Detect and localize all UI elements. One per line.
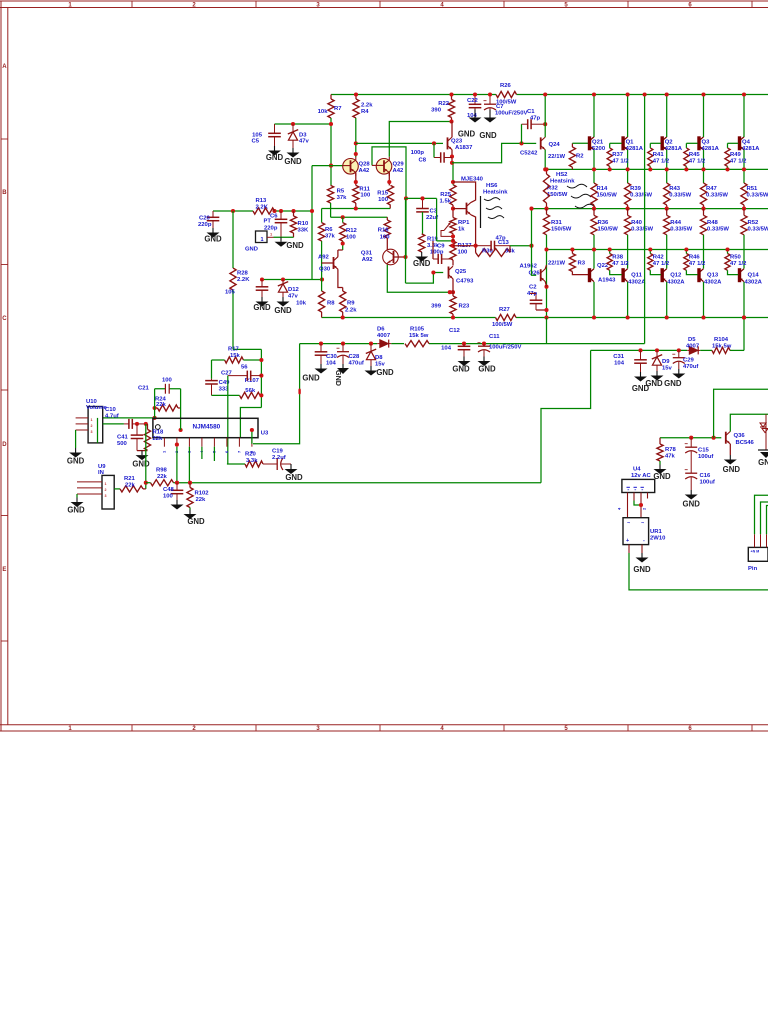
wire Q31 base bbox=[394, 256, 406, 258]
resistor R42 bbox=[648, 254, 653, 271]
wire input to loop bbox=[103, 417, 155, 419]
svg-text:U3: U3 bbox=[261, 431, 269, 437]
svg-text:10k: 10k bbox=[296, 301, 307, 307]
resistor R41 bbox=[648, 148, 653, 167]
capacitor C12 bbox=[463, 344, 465, 347]
svg-text:R46: R46 bbox=[689, 255, 701, 261]
svg-text:3: 3 bbox=[105, 494, 107, 498]
resistor R21 bbox=[114, 488, 120, 490]
svg-text:Q14: Q14 bbox=[748, 273, 760, 279]
svg-text:12v AC: 12v AC bbox=[631, 473, 652, 479]
svg-text:R44: R44 bbox=[670, 220, 682, 226]
resistor R107 bbox=[240, 392, 261, 398]
svg-text:100uF/250V: 100uF/250V bbox=[495, 111, 527, 117]
wire pin3 down bbox=[188, 447, 190, 483]
wire UR1 outputs bbox=[628, 545, 630, 553]
svg-text:Q21: Q21 bbox=[592, 140, 604, 146]
ground D12 bbox=[282, 297, 284, 302]
svg-text:500: 500 bbox=[117, 441, 128, 447]
svg-text:C19: C19 bbox=[272, 449, 284, 455]
svg-text:R105: R105 bbox=[410, 327, 425, 333]
svg-text:4281A: 4281A bbox=[665, 146, 683, 152]
svg-text:Q24: Q24 bbox=[549, 142, 561, 148]
wire Q3 collector bbox=[703, 95, 705, 138]
svg-text:R39: R39 bbox=[630, 186, 642, 192]
svg-text:Q13: Q13 bbox=[707, 273, 719, 279]
transistor Q4 bbox=[738, 136, 741, 150]
svg-text:47v: 47v bbox=[299, 139, 310, 145]
wire Q2 collector bbox=[666, 95, 668, 138]
resistor R11 bbox=[353, 185, 359, 203]
resistor R8 bbox=[319, 291, 325, 312]
svg-text:R51: R51 bbox=[747, 186, 759, 192]
svg-text:C28: C28 bbox=[349, 354, 361, 360]
svg-text:R42: R42 bbox=[653, 255, 665, 261]
svg-text:Q2: Q2 bbox=[665, 140, 674, 146]
ground D9 bbox=[656, 371, 658, 376]
svg-text:D12: D12 bbox=[288, 287, 300, 293]
svg-text:GND: GND bbox=[334, 370, 343, 386]
wire R49 bbox=[728, 142, 739, 144]
svg-text:R14: R14 bbox=[597, 186, 609, 192]
capacitor C22 bbox=[474, 95, 476, 105]
ground C31 bbox=[640, 372, 642, 377]
svg-text:GND: GND bbox=[204, 235, 222, 244]
capacitor C15 bbox=[690, 438, 692, 448]
svg-text:A42: A42 bbox=[359, 168, 371, 174]
svg-text:D8: D8 bbox=[375, 355, 383, 361]
resistor R23 bbox=[450, 296, 456, 314]
wire Q13 collector bbox=[703, 282, 705, 318]
svg-text:R41: R41 bbox=[653, 152, 665, 158]
resistor R31 bbox=[543, 214, 549, 235]
capacitor C4 105 bbox=[261, 280, 263, 287]
svg-text:C30: C30 bbox=[326, 354, 338, 360]
svg-text:47 1/2: 47 1/2 bbox=[612, 159, 629, 165]
svg-text:R2: R2 bbox=[576, 154, 584, 160]
svg-text:R8: R8 bbox=[327, 301, 335, 307]
svg-text:R37: R37 bbox=[612, 152, 624, 158]
svg-text:2.2k: 2.2k bbox=[345, 308, 357, 314]
wire Q26 collector bbox=[545, 265, 546, 269]
svg-text:GND: GND bbox=[478, 365, 496, 374]
wire Q2 emitter bbox=[666, 150, 668, 183]
resistor R9 bbox=[340, 291, 346, 312]
wire V- to supply row bbox=[546, 318, 548, 344]
svg-text:47 1/2: 47 1/2 bbox=[689, 159, 706, 165]
svg-text:10k: 10k bbox=[318, 109, 329, 115]
resistor R10 bbox=[290, 216, 296, 233]
resistor R38 bbox=[607, 254, 612, 271]
wire Q1 collector bbox=[627, 95, 629, 138]
ground right edge bbox=[758, 449, 768, 451]
wire R30 to Q26 base bbox=[510, 245, 532, 247]
transistor Q21 bbox=[588, 136, 591, 150]
svg-text:100p: 100p bbox=[430, 250, 444, 256]
svg-text:GND: GND bbox=[284, 157, 302, 166]
svg-text:R78: R78 bbox=[665, 447, 677, 453]
svg-text:GND: GND bbox=[67, 457, 85, 466]
wire op-amp supply drop bbox=[253, 344, 300, 444]
svg-text:Q11: Q11 bbox=[631, 273, 643, 279]
svg-text:GND: GND bbox=[479, 131, 497, 140]
wire R107 row bbox=[212, 394, 240, 396]
svg-text:Q12: Q12 bbox=[670, 273, 682, 279]
wire bias feed bbox=[714, 389, 768, 437]
capacitor C6 bbox=[280, 211, 282, 219]
wire Q36 collector bbox=[730, 414, 768, 431]
ground R78 bbox=[659, 461, 661, 465]
wire C3 to R19 bbox=[422, 212, 424, 234]
capacitor C3 bbox=[422, 198, 424, 208]
wire Q24 base bbox=[522, 142, 537, 144]
svg-text:R40: R40 bbox=[631, 220, 643, 226]
wire driver chain bbox=[452, 163, 454, 185]
ground C28 rotated bbox=[342, 364, 344, 368]
ground C19 bbox=[290, 464, 292, 469]
transistor Q22 bbox=[588, 268, 591, 282]
svg-text:1: 1 bbox=[260, 237, 263, 243]
wire Q28 base bbox=[312, 165, 344, 167]
wire zener supply row bbox=[591, 349, 688, 351]
wire R28 column bbox=[232, 211, 234, 268]
svg-text:1k: 1k bbox=[458, 227, 465, 233]
svg-text:100: 100 bbox=[378, 197, 389, 203]
svg-text:B: B bbox=[2, 190, 7, 196]
svg-text:1.5k: 1.5k bbox=[440, 199, 452, 205]
svg-text:0.33/5W: 0.33/5W bbox=[707, 227, 729, 233]
svg-text:15v: 15v bbox=[375, 362, 386, 368]
svg-text:R21: R21 bbox=[124, 476, 136, 482]
resistor R40 bbox=[625, 215, 631, 235]
resistor R22 bbox=[448, 100, 454, 118]
svg-text:104: 104 bbox=[326, 361, 337, 367]
wire Q13 emitter bbox=[703, 262, 705, 269]
svg-text:R9: R9 bbox=[347, 301, 355, 307]
svg-text:R43: R43 bbox=[669, 186, 681, 192]
svg-text:C12: C12 bbox=[449, 328, 461, 334]
svg-text:2.2uf: 2.2uf bbox=[272, 455, 286, 461]
wire Q36 emitter bbox=[729, 444, 731, 455]
wire column Q4 bbox=[743, 235, 745, 262]
svg-text:Pin: Pin bbox=[748, 566, 758, 572]
resistor R20 bbox=[227, 463, 245, 465]
wire R17 loop bbox=[212, 359, 225, 361]
svg-text:4007: 4007 bbox=[686, 344, 700, 350]
bridge rectifier UR1 bbox=[623, 518, 649, 545]
svg-text:C1: C1 bbox=[527, 109, 535, 115]
svg-text:Q36: Q36 bbox=[734, 433, 746, 439]
resistor R102 bbox=[187, 488, 193, 508]
resistor R17 bbox=[225, 357, 244, 363]
svg-text:100uf: 100uf bbox=[700, 480, 715, 486]
wire Q21 collector bbox=[593, 95, 595, 138]
svg-text:GND: GND bbox=[285, 473, 303, 482]
svg-text:C5: C5 bbox=[251, 139, 259, 145]
wire R38 bbox=[609, 250, 611, 254]
wire PT/C6/R10 gnd node bbox=[274, 236, 294, 238]
resistor R27 bbox=[496, 314, 517, 320]
wire loop verticals bbox=[154, 389, 156, 419]
resistor R24 bbox=[158, 405, 179, 411]
svg-text:C48: C48 bbox=[163, 487, 175, 493]
svg-text:Heatsink: Heatsink bbox=[550, 179, 575, 185]
svg-text:R50: R50 bbox=[730, 255, 742, 261]
svg-text:GND: GND bbox=[645, 379, 663, 388]
svg-text:220p: 220p bbox=[198, 222, 212, 228]
wire input node column bbox=[311, 166, 313, 280]
transformer U4 bbox=[622, 479, 655, 492]
svg-text:+N M: +N M bbox=[751, 550, 760, 554]
svg-text:2.2K: 2.2K bbox=[237, 277, 250, 283]
diode D6 bbox=[377, 343, 380, 345]
wire pin4 stub bbox=[201, 447, 203, 459]
wire pin2 to C10 bbox=[103, 423, 124, 425]
resistor R98 bbox=[151, 480, 174, 486]
svg-text:BC546: BC546 bbox=[736, 440, 755, 446]
svg-text:150/5W: 150/5W bbox=[547, 192, 568, 198]
svg-text:GND: GND bbox=[683, 500, 701, 509]
svg-text:Q31: Q31 bbox=[361, 251, 373, 257]
svg-text:GND: GND bbox=[67, 506, 85, 515]
transistor Q11 bbox=[621, 268, 624, 282]
svg-text:R25: R25 bbox=[440, 192, 452, 198]
svg-text:Q29: Q29 bbox=[393, 162, 405, 168]
svg-text:D9: D9 bbox=[662, 359, 670, 365]
capacitor C31 bbox=[640, 350, 642, 359]
wire Q29 collector bbox=[388, 173, 390, 186]
resistor R30 bbox=[475, 246, 477, 253]
svg-text:470uf: 470uf bbox=[683, 364, 698, 370]
svg-text:GND: GND bbox=[723, 465, 741, 474]
svg-text:470uf: 470uf bbox=[349, 361, 364, 367]
svg-text:104: 104 bbox=[614, 361, 625, 367]
svg-text:+: + bbox=[626, 538, 629, 544]
diode D3 bbox=[292, 124, 294, 132]
wire Q2 collector bbox=[453, 182, 476, 202]
svg-text:A1943: A1943 bbox=[598, 278, 616, 284]
svg-text:R4: R4 bbox=[361, 109, 369, 115]
ground C5 bbox=[274, 146, 276, 151]
svg-text:R52: R52 bbox=[748, 220, 760, 226]
op-amp U3 pins bbox=[163, 438, 165, 447]
wire Q28 collector bbox=[355, 173, 357, 186]
svg-text:U4: U4 bbox=[633, 467, 641, 473]
wire R7 column bbox=[330, 118, 332, 185]
resistor R37 bbox=[607, 148, 612, 167]
wire op-amp supply row bbox=[300, 343, 378, 345]
svg-text:2: 2 bbox=[91, 424, 93, 428]
svg-text:NJM4580: NJM4580 bbox=[193, 424, 221, 431]
svg-text:100uF/250V: 100uF/250V bbox=[489, 345, 521, 351]
wire R3 to Q22 base bbox=[572, 272, 588, 275]
svg-text:C20: C20 bbox=[199, 216, 211, 222]
ground C11 bbox=[483, 357, 485, 362]
svg-text:Q1: Q1 bbox=[626, 140, 635, 146]
wire V- rail bbox=[322, 317, 496, 319]
transistor Q23 A1837 bbox=[434, 142, 443, 144]
svg-text:47 1/2: 47 1/2 bbox=[689, 261, 706, 267]
svg-text:22/1W: 22/1W bbox=[548, 261, 565, 267]
svg-text:R45: R45 bbox=[689, 152, 701, 158]
wire VAS coupling bbox=[406, 197, 437, 199]
transistor Q36 BC546 bbox=[725, 432, 727, 444]
op-amp U3 NJM4580 bbox=[153, 418, 258, 437]
ground C29 bbox=[678, 369, 680, 374]
wire U4 pins bbox=[627, 493, 629, 518]
diode D12 bbox=[282, 280, 284, 284]
svg-text:GND: GND bbox=[245, 247, 258, 253]
resistor R78 bbox=[657, 444, 663, 461]
svg-text:GND: GND bbox=[286, 241, 304, 250]
svg-text:100: 100 bbox=[162, 378, 173, 384]
wire Q24 emitter bbox=[544, 150, 546, 170]
resistor R28 bbox=[230, 268, 236, 290]
wire Q3 emitter bbox=[703, 150, 705, 183]
wire output bus 1 bbox=[546, 168, 768, 170]
transistor Q13 bbox=[697, 268, 700, 282]
svg-text:37k: 37k bbox=[325, 234, 336, 240]
ground C12 bbox=[463, 357, 465, 362]
wire V+ rail bbox=[331, 94, 496, 96]
resistor R4 bbox=[353, 99, 359, 118]
connector Pin bbox=[748, 547, 768, 561]
resistor R32 bbox=[543, 174, 549, 203]
svg-text:C: C bbox=[2, 316, 7, 322]
wire Q12 emitter bbox=[666, 262, 668, 269]
wire Q30 collector bbox=[338, 269, 343, 287]
svg-text:100/5W: 100/5W bbox=[492, 322, 513, 328]
svg-text:2W10: 2W10 bbox=[650, 536, 666, 542]
ground U10 bbox=[75, 430, 77, 448]
resistor R104 bbox=[712, 347, 730, 353]
transistor Q14 bbox=[738, 268, 741, 282]
svg-text:PT: PT bbox=[264, 219, 272, 225]
svg-text:GND: GND bbox=[633, 565, 651, 574]
wire V- supply column right bbox=[743, 318, 745, 351]
ground Q36 bbox=[729, 455, 731, 460]
resistor R5 bbox=[328, 185, 334, 203]
wire column Q1 bbox=[627, 235, 629, 262]
svg-text:R18: R18 bbox=[153, 430, 165, 436]
diode D5 bbox=[687, 349, 689, 351]
resistor R51 bbox=[741, 183, 747, 205]
wire C27 to pin6 bbox=[227, 376, 229, 464]
svg-text:100: 100 bbox=[360, 193, 371, 199]
resistor R19 bbox=[419, 234, 425, 252]
wire Q29 base loop bbox=[372, 147, 406, 257]
svg-text:15k 5w: 15k 5w bbox=[409, 333, 429, 339]
capacitor C11 bbox=[483, 344, 485, 347]
capacitor C9 bbox=[433, 258, 438, 260]
svg-text:100p: 100p bbox=[411, 150, 425, 156]
capacitor C48 bbox=[176, 483, 178, 491]
wire R46 bbox=[685, 250, 687, 254]
wire R45 bbox=[686, 142, 697, 144]
connector U9 IN bbox=[102, 475, 114, 509]
svg-text:A42: A42 bbox=[393, 168, 405, 174]
svg-text:22k: 22k bbox=[156, 402, 167, 408]
wire 105/D12 row bbox=[262, 279, 322, 281]
svg-text:R16: R16 bbox=[378, 228, 390, 234]
transistor Q25 bbox=[448, 267, 450, 279]
svg-text:33K: 33K bbox=[298, 228, 310, 234]
svg-text:105: 105 bbox=[225, 290, 236, 296]
svg-text:Q3: Q3 bbox=[702, 140, 711, 146]
svg-text:47 1/2: 47 1/2 bbox=[612, 261, 629, 267]
svg-text:15k: 15k bbox=[230, 353, 241, 359]
svg-text:4281A: 4281A bbox=[742, 146, 760, 152]
svg-text:C22: C22 bbox=[467, 98, 479, 104]
svg-text:3.3k: 3.3k bbox=[246, 458, 258, 464]
resistor R26 bbox=[496, 91, 517, 97]
ground C6 R10 bbox=[280, 237, 282, 242]
svg-text:100uf: 100uf bbox=[698, 454, 713, 460]
svg-text:GND: GND bbox=[253, 303, 271, 312]
svg-text:C15: C15 bbox=[698, 448, 710, 454]
transistor Q12 bbox=[661, 268, 664, 282]
wire Q11 emitter bbox=[627, 262, 629, 269]
svg-text:0.33/5W: 0.33/5W bbox=[747, 193, 768, 199]
svg-text:47v: 47v bbox=[288, 294, 299, 300]
svg-text:0.33/5W: 0.33/5W bbox=[631, 227, 653, 233]
transistor Q28 bbox=[343, 159, 359, 175]
ground U9 bbox=[76, 494, 78, 498]
transistor Q29 bbox=[376, 159, 392, 175]
resistor R3 bbox=[569, 254, 575, 272]
svg-text:A1962: A1962 bbox=[520, 264, 538, 270]
svg-text:47k: 47k bbox=[665, 454, 676, 460]
svg-text:R10: R10 bbox=[298, 221, 310, 227]
svg-text:47 1/2: 47 1/2 bbox=[730, 261, 747, 267]
svg-text:56k: 56k bbox=[245, 388, 256, 394]
svg-text:4302A: 4302A bbox=[667, 280, 685, 286]
ground R19 bbox=[421, 252, 423, 257]
svg-text:0.33/5W: 0.33/5W bbox=[630, 193, 652, 199]
svg-text:HS2: HS2 bbox=[556, 172, 568, 178]
transistor Q30 bbox=[338, 249, 343, 251]
capacitor C5 bbox=[274, 124, 276, 133]
svg-text:104: 104 bbox=[441, 346, 452, 352]
ground C22 bbox=[474, 110, 476, 118]
svg-text:100: 100 bbox=[163, 494, 174, 500]
capacitor C30 bbox=[320, 344, 322, 352]
transistor Q2 MJE340 bbox=[453, 208, 467, 210]
capacitor C2 bbox=[535, 293, 537, 300]
wire Q22 emitter bbox=[593, 262, 595, 269]
svg-text:GND: GND bbox=[458, 130, 476, 139]
ground UR1 bbox=[641, 553, 643, 558]
wire Q25 base route bbox=[406, 273, 444, 284]
svg-text:22k: 22k bbox=[157, 474, 168, 480]
wire Q29 emitter/R22 net bbox=[389, 122, 451, 157]
svg-text:-: - bbox=[643, 538, 645, 544]
resistor R39 bbox=[625, 183, 631, 205]
svg-text:0.33/5W: 0.33/5W bbox=[706, 193, 728, 199]
svg-text:GND: GND bbox=[413, 259, 431, 268]
ground C16 bbox=[690, 490, 692, 495]
svg-text:100/5W: 100/5W bbox=[496, 100, 517, 106]
svg-text:R7: R7 bbox=[334, 106, 342, 112]
svg-text:C4793: C4793 bbox=[456, 279, 474, 285]
resistor R44 bbox=[664, 215, 670, 235]
svg-text:4007: 4007 bbox=[377, 333, 391, 339]
wire C13 net bbox=[436, 198, 438, 241]
svg-text:47 1/2: 47 1/2 bbox=[730, 159, 747, 165]
svg-text:E: E bbox=[2, 567, 6, 573]
svg-text:100: 100 bbox=[346, 235, 357, 241]
svg-text:GN: GN bbox=[758, 458, 768, 467]
